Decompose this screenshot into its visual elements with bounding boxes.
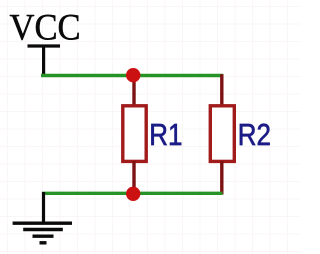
power symbol VCC stem: [42, 46, 45, 76]
ground bar 1: [13, 221, 72, 224]
wire top horizontal: [41, 74, 223, 77]
svg-text:R2: R2: [238, 118, 271, 153]
ground bar 2: [23, 228, 63, 231]
ground bar 4: [40, 241, 47, 244]
wire bottom horizontal: [42, 192, 223, 195]
power symbol VCC bar: [28, 44, 61, 47]
ground stem: [42, 192, 45, 223]
junction dot bottom: [126, 187, 140, 201]
resistor R2 top pin: [220, 74, 223, 105]
resistor R1 top pin: [132, 77, 135, 105]
resistor R1 body: [123, 106, 146, 162]
svg-text:R1: R1: [149, 118, 182, 153]
ground bar 3: [33, 234, 54, 237]
resistor R1 bottom pin: [132, 161, 135, 193]
resistor R2 bottom pin: [220, 161, 223, 195]
svg-text:VCC: VCC: [10, 7, 81, 48]
resistor R2 body: [210, 106, 234, 162]
junction dot top: [126, 68, 140, 82]
